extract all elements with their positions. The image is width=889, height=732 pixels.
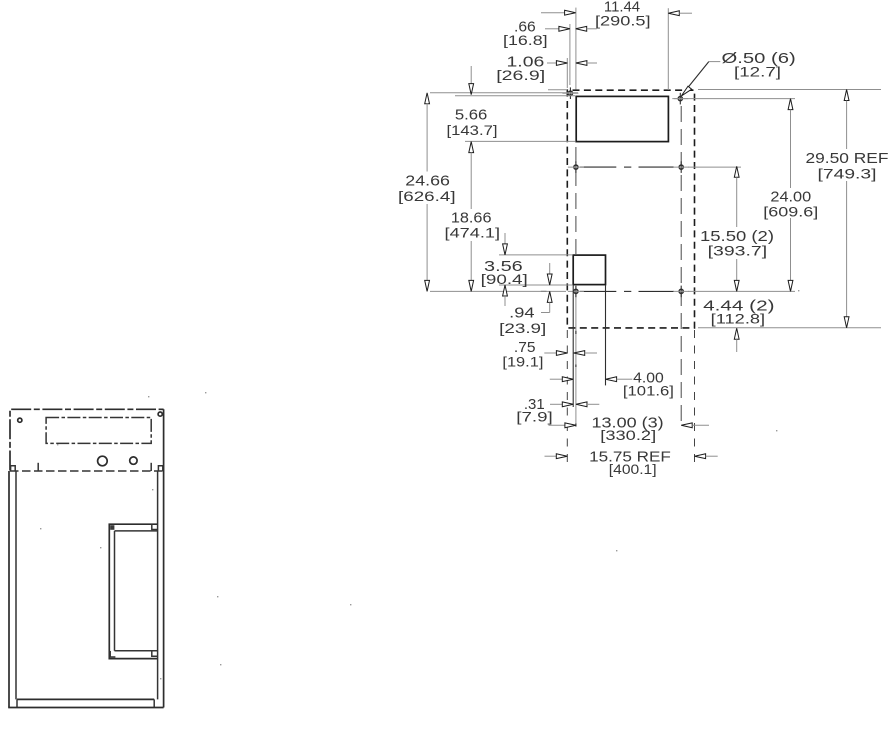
top panel bottom dashed edge [10,470,164,472]
extension line display-right up [667,8,669,90]
extension line top hole row right [674,98,795,100]
panel corner notch left [11,466,16,471]
body left inner edge [15,471,17,699]
svg-text:[7.9]: [7.9] [516,410,553,425]
svg-text:5.66: 5.66 [455,108,487,124]
dimension 1.06 [26.9] [547,62,556,64]
extension line top hole row left [430,92,578,94]
svg-text:[90.4]: [90.4] [481,272,528,287]
centerline right hole column [680,106,682,426]
hole middle-right (Ø.50) [673,161,689,173]
dimension 24.66 [626.4] hole row span [425,93,430,104]
screw hole top-right [158,412,162,416]
svg-text:[19.1]: [19.1] [502,355,543,370]
extension line bottom hole row left [430,290,566,292]
svg-text:[101.6]: [101.6] [623,384,674,399]
dimension 24.00 [609.6] hole column span [788,99,793,110]
extension line box-left down [572,286,574,408]
svg-text:24.00: 24.00 [770,190,811,206]
bottom bar left end [16,699,18,707]
svg-text:29.50 REF: 29.50 REF [806,151,889,167]
door window inner left edge [114,531,116,651]
svg-text:[626.4]: [626.4] [398,189,456,204]
dimension .31 [7.9] [550,403,562,405]
svg-text:[393.7]: [393.7] [708,244,768,259]
extension line display-top left [455,95,575,97]
dimension 3.56 [90.4] box height [504,233,506,244]
dimension .94 [23.9] [549,263,551,274]
extension line box-top left [499,254,572,256]
extension line display-bottom left [465,140,575,142]
body left outer edge [8,471,10,708]
dimension 29.50 REF [749.3] overall height [844,90,849,101]
svg-text:24.66: 24.66 [405,174,450,190]
dimension 5.66 [143.7] display height [470,66,472,84]
dimension .66 [16.8] [545,28,559,30]
hole bottom-left (Ø.50) [568,286,584,298]
door window inner top edge [115,530,158,532]
centerline middle hole row [580,166,616,168]
hole middle-left (Ø.50) [568,161,584,173]
enclosure right outer edge [163,409,165,707]
window notch top-right [152,524,158,529]
centerline left hole column upper [575,147,577,254]
extension line panel-bottom right [698,327,881,329]
window notch bottom-left [110,651,115,657]
svg-text:.94: .94 [509,306,534,322]
knob hole right [130,457,137,464]
svg-text:[16.8]: [16.8] [503,33,548,48]
leader and note Ø.50 (6) [12.7] hole callout [709,61,721,63]
dimension 11.44 [290.5] display width [541,12,565,14]
svg-text:[749.3]: [749.3] [818,166,877,181]
extension line top-left hole up [569,24,571,85]
extension line box-right down [605,286,607,386]
svg-text:[23.9]: [23.9] [499,321,546,336]
outlet box cutout (solid rectangle 4.00 x 3.56) [573,255,605,285]
knob hole left [98,456,108,466]
enclosure top panel outline [10,409,164,470]
bottom bar top edge [17,698,154,700]
hole bottom-right (Ø.50) [673,286,689,298]
svg-text:[143.7]: [143.7] [447,123,498,138]
svg-text:[112.8]: [112.8] [711,312,765,327]
svg-text:[400.1]: [400.1] [609,462,657,477]
panel tick left [37,463,39,471]
svg-text:[474.1]: [474.1] [445,225,501,240]
centerline bottom hole row [541,290,547,292]
extension line middle hole row right [688,166,741,168]
scan speckles [40,290,799,679]
hole top-left (Ø.50) [562,87,578,99]
extension line bottom hole row right [688,290,795,292]
svg-text:[290.5]: [290.5] [595,13,651,28]
panel outline (dashed rectangle 15.75 x 29.50) [567,90,694,328]
dimension 4.00 [101.6] box width [550,378,563,380]
display window dash-dot rectangle [46,418,151,444]
door window inner bottom edge [115,650,158,652]
body right inner edge [157,471,159,699]
panel corner notch right [158,466,162,471]
enclosure bottom outer edge [8,707,163,709]
svg-text:.75: .75 [514,340,536,356]
dimension 15.75 REF [400.1] overall width [545,455,557,457]
extension line panel-left down [566,330,568,462]
extension line box-bottom left [499,284,572,286]
display cutout (solid rectangle 11.44 x 5.66) [576,96,668,141]
extension line display-left up [575,8,577,90]
centerline left hole column lower [575,285,577,427]
extension line panel-top right [698,89,881,91]
svg-text:[609.6]: [609.6] [763,205,818,220]
dimension 15.50 (2) [393.7] [734,166,739,177]
svg-text:[330.2]: [330.2] [600,428,656,443]
svg-text:[12.7]: [12.7] [734,64,781,79]
svg-text:18.66: 18.66 [451,211,492,227]
window notch top-left [110,525,114,530]
dimension 4.44 (2) [112.8] [734,328,739,339]
extension line panel-left up [566,58,568,88]
door window outer rectangle [109,524,157,658]
panel tick right [150,463,152,471]
dimension .75 [19.1] [544,352,556,354]
svg-text:[26.9]: [26.9] [496,68,545,83]
window notch bottom-right [152,651,158,656]
screw hole top-left [18,418,22,422]
hole top-right (Ø.50) [672,93,688,105]
extension line panel-top left stub [548,89,567,91]
extension line panel-right down [694,330,696,462]
dimension 13.00 (3) [330.2] hole column spacing [549,424,565,426]
dimension 18.66 [474.1] [470,153,472,210]
bottom bar right end [153,699,155,707]
